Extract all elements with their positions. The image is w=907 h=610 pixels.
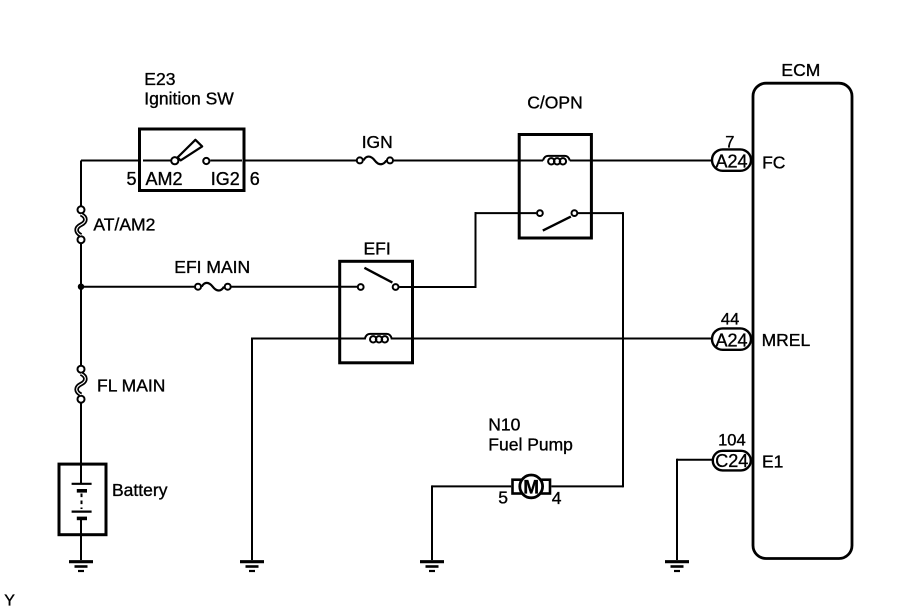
pin number 7 xyxy=(725,133,734,151)
label IGN xyxy=(362,132,393,152)
svg-text:C/OPN: C/OPN xyxy=(527,93,582,113)
wire EFI coil to ground riser xyxy=(252,338,366,561)
ground EFI coil xyxy=(240,562,264,571)
svg-text:C24: C24 xyxy=(715,451,748,471)
fuse AT/AM2 xyxy=(77,206,86,243)
svg-text:7: 7 xyxy=(725,133,734,151)
wire E1 to ground xyxy=(677,459,713,560)
label N10 / Fuel Pump xyxy=(488,415,573,455)
relay C/OPN switch contacts xyxy=(537,210,577,230)
label C/OPN xyxy=(527,93,582,113)
svg-text:A24: A24 xyxy=(715,152,747,172)
svg-text:Ignition SW: Ignition SW xyxy=(144,89,234,109)
svg-text:AT/AM2: AT/AM2 xyxy=(93,215,155,235)
wire EFI MAIN branch xyxy=(81,286,194,288)
svg-text:FC: FC xyxy=(762,153,785,173)
svg-text:Battery: Battery xyxy=(112,480,168,500)
label EFI MAIN xyxy=(174,257,250,277)
svg-text:FL MAIN: FL MAIN xyxy=(97,376,165,396)
svg-text:5: 5 xyxy=(127,169,137,189)
wire EFI coil to ECM pin MREL xyxy=(391,338,712,340)
wire C/OPN switch right pin to fuel pump (down leg) xyxy=(578,212,623,487)
svg-text:5: 5 xyxy=(498,488,508,508)
svg-text:IGN: IGN xyxy=(362,132,393,152)
svg-text:Fuel Pump: Fuel Pump xyxy=(488,435,573,455)
svg-text:EFI MAIN: EFI MAIN xyxy=(174,257,250,277)
ignition switch contacts and lever xyxy=(143,140,242,164)
relay EFI box xyxy=(340,261,413,363)
svg-text:ECM: ECM xyxy=(781,60,820,80)
svg-text:E23: E23 xyxy=(144,69,175,89)
pin IG2 label xyxy=(211,169,240,189)
fuse EFI MAIN xyxy=(195,283,231,291)
svg-text:6: 6 xyxy=(250,169,260,189)
relay C/OPN coil xyxy=(543,156,570,165)
label ECM xyxy=(781,60,820,80)
svg-text:E1: E1 xyxy=(762,452,783,472)
pin number 44 xyxy=(721,310,739,328)
wire EFI MAIN fuse to EFI relay xyxy=(231,286,357,288)
wire left battery bus vertical xyxy=(80,161,82,485)
relay EFI coil xyxy=(365,334,392,343)
wire C/OPN switch left pin to EFI relay (down leg) xyxy=(475,212,537,287)
relay EFI switch contacts xyxy=(358,268,399,290)
ground fuel pump xyxy=(420,562,444,571)
connector A24 pin 44 (MREL) xyxy=(712,328,751,350)
wire C/OPN coil to ECM pin FC xyxy=(570,160,712,162)
wire ignition switch to IGN fuse xyxy=(244,160,356,162)
wire IGN fuse to C/OPN relay coil xyxy=(394,160,543,162)
pin 5 label xyxy=(127,169,137,189)
label AT/AM2 xyxy=(93,215,155,235)
connector C24 pin 104 (E1) xyxy=(713,451,751,471)
pin 4 label fuel pump xyxy=(552,488,562,508)
fuse IGN xyxy=(357,157,393,165)
svg-text:N10: N10 xyxy=(488,415,520,435)
label FL MAIN xyxy=(97,376,165,396)
label Battery xyxy=(112,480,168,500)
relay C/OPN box xyxy=(519,135,591,239)
label MREL xyxy=(762,330,811,350)
svg-text:A24: A24 xyxy=(715,330,747,350)
svg-text:Y: Y xyxy=(4,593,15,610)
pin number 104 xyxy=(718,431,746,449)
page marker Y xyxy=(4,593,15,610)
pin 5 label fuel pump xyxy=(498,488,508,508)
ground battery xyxy=(69,562,93,571)
wire fuel pump right xyxy=(551,485,623,487)
ground E1 xyxy=(665,562,689,571)
ignition switch E23 box xyxy=(140,129,245,191)
label FC xyxy=(762,153,785,173)
svg-text:AM2: AM2 xyxy=(146,169,183,189)
svg-text:IG2: IG2 xyxy=(211,169,240,189)
fuse FL MAIN (fusible link) xyxy=(77,366,86,403)
svg-text:EFI: EFI xyxy=(364,239,391,259)
fuel pump motor M xyxy=(513,475,551,498)
svg-text:44: 44 xyxy=(721,310,739,328)
battery BAT xyxy=(59,464,106,560)
svg-text:M: M xyxy=(523,477,539,498)
node junction battery bus / EFI MAIN xyxy=(78,284,84,290)
pin AM2 label xyxy=(146,169,183,189)
wire fuel pump left to ground riser xyxy=(432,485,511,560)
pin 6 label xyxy=(250,169,260,189)
svg-text:MREL: MREL xyxy=(762,330,811,350)
svg-text:4: 4 xyxy=(552,488,562,508)
connector A24 pin 7 (FC) xyxy=(712,149,751,171)
wire main top bus from left bus to ignition switch xyxy=(81,160,140,162)
label E1 xyxy=(762,452,783,472)
svg-text:104: 104 xyxy=(718,431,746,449)
label EFI xyxy=(364,239,391,259)
ECM box xyxy=(753,83,852,558)
wire EFI switch right pin to C/OPN leg xyxy=(399,286,476,288)
label E23 / Ignition SW xyxy=(144,69,234,109)
